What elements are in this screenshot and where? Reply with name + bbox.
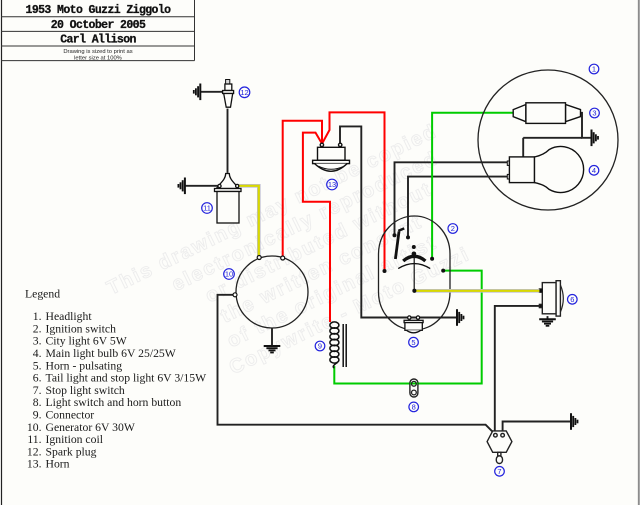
svg-text:Carl Allison: Carl Allison <box>60 34 136 47</box>
switch S2 rotor hub dot <box>412 252 417 257</box>
wire: horn13 black to pulsating horn and ground <box>340 126 457 317</box>
wire: spark plug to coil HT <box>227 109 229 173</box>
svg-text:10: 10 <box>225 270 233 279</box>
svg-text:1953 Moto Guzzi Ziggolo: 1953 Moto Guzzi Ziggolo <box>26 4 172 17</box>
label 3 <box>590 108 600 118</box>
svg-text:3: 3 <box>592 109 596 118</box>
svg-text:7.: 7. <box>33 384 42 397</box>
label 8 <box>409 402 419 412</box>
svg-text:Legend: Legend <box>25 288 60 301</box>
generator terminals <box>233 256 285 297</box>
label 9 <box>315 341 325 351</box>
svg-text:9: 9 <box>318 342 322 351</box>
svg-text:Horn - pulsating: Horn - pulsating <box>46 359 123 372</box>
svg-text:4.: 4. <box>33 347 42 360</box>
page border left <box>1 0 3 505</box>
horn H13 <box>313 143 350 171</box>
switch S2 rotor thin arc <box>398 264 430 269</box>
coupler coil L9 <box>330 322 346 368</box>
wire: black headlight low-beam to switch <box>395 162 508 235</box>
svg-text:Horn: Horn <box>46 458 70 471</box>
switch S2 lever <box>395 232 399 260</box>
stop light switch S7 <box>487 431 512 464</box>
ignition coil T11 <box>215 174 242 224</box>
svg-text:Spark plug: Spark plug <box>46 445 97 458</box>
svg-text:Headlight: Headlight <box>46 310 93 323</box>
svg-text:13: 13 <box>328 180 336 189</box>
wire: tail light to stop switch <box>495 306 540 434</box>
svg-text:12: 12 <box>240 88 248 97</box>
label 11 <box>202 203 213 214</box>
node: switch bottom contact redraw <box>412 289 416 293</box>
svg-text:7: 7 <box>497 467 501 476</box>
svg-text:1: 1 <box>592 65 596 74</box>
ground G7 stop switch <box>571 413 578 430</box>
horn H5 pulsating <box>404 316 423 333</box>
wire: red horn13 to coupler coil <box>303 133 330 322</box>
main bulb B4 <box>507 146 583 192</box>
generator M10 <box>236 256 308 328</box>
legend items <box>27 310 207 471</box>
label 2 <box>448 224 458 234</box>
wire: green city light to switch <box>432 113 513 259</box>
wire: stop switch to ground <box>503 422 571 434</box>
wire: generator left terminal to bottom bus <box>218 295 496 435</box>
svg-text:City light 6V 5W: City light 6V 5W <box>46 335 128 348</box>
wire: yellow switch to tail light <box>414 289 539 293</box>
wire: black headlight internal ground bus <box>523 137 582 139</box>
wire: black headlight high-beam to switch <box>408 177 507 238</box>
ground G6 tail light <box>539 319 556 326</box>
svg-text:Main light bulb 6V 25/25W: Main light bulb 6V 25/25W <box>46 347 177 360</box>
spark plug P12 <box>223 80 234 108</box>
svg-text:4: 4 <box>592 166 596 175</box>
ignition switch S2 body <box>379 216 451 330</box>
label 5 <box>409 337 419 347</box>
label 1 <box>589 64 599 74</box>
label 4 <box>589 166 599 176</box>
switch S2 contacts <box>383 233 446 292</box>
svg-text:9.: 9. <box>33 409 42 422</box>
svg-text:1.: 1. <box>33 310 42 323</box>
svg-text:8: 8 <box>412 403 416 412</box>
wire: green switch to coupler via connector <box>334 271 481 384</box>
svg-text:3.: 3. <box>33 335 42 348</box>
wire: coil ground lead <box>185 185 218 187</box>
svg-text:Generator 6V 30W: Generator 6V 30W <box>46 421 136 434</box>
svg-text:5: 5 <box>411 338 415 347</box>
tail light B6 <box>539 281 563 316</box>
label 13 <box>327 179 338 190</box>
svg-text:5.: 5. <box>33 359 42 372</box>
svg-text:6.: 6. <box>33 372 42 385</box>
label 12 <box>239 87 250 98</box>
wire: spark plug ground lead <box>200 91 222 93</box>
svg-text:10.: 10. <box>27 421 42 434</box>
svg-text:Light switch and horn button: Light switch and horn button <box>46 396 182 409</box>
ground G4 horn bus <box>457 309 464 326</box>
window edge right <box>638 0 640 505</box>
svg-text:12.: 12. <box>27 445 42 458</box>
svg-text:2: 2 <box>451 224 455 233</box>
svg-text:Connector: Connector <box>46 409 95 422</box>
svg-text:Drawing is sized to print as: Drawing is sized to print as <box>63 49 132 55</box>
label 10 <box>224 269 235 280</box>
svg-text:letter size at 100%: letter size at 100% <box>74 55 122 61</box>
title block frame <box>1 0 195 61</box>
ground G3 coil <box>178 178 185 195</box>
svg-text:11: 11 <box>203 204 211 213</box>
svg-text:11.: 11. <box>27 433 41 446</box>
wire: black festoon to ground junction <box>581 113 592 138</box>
generator ground stem <box>271 328 273 346</box>
wire: black bulb base to ground bus <box>522 138 524 157</box>
tail light ground stem <box>547 316 549 319</box>
label 7 <box>495 467 505 477</box>
wire: yellow coil to generator <box>238 186 259 257</box>
svg-text:20 October 2005: 20 October 2005 <box>51 19 146 32</box>
ground G5 generator <box>264 346 281 353</box>
switch S2 rotor thick arc <box>403 256 425 261</box>
label 6 <box>568 295 578 305</box>
svg-text:Ignition switch: Ignition switch <box>46 322 117 335</box>
switch S2 rotor shaft <box>413 255 415 291</box>
wire: red horn13 to ignition switch <box>322 112 384 271</box>
svg-text:Ignition coil: Ignition coil <box>46 433 104 446</box>
svg-text:13.: 13. <box>27 458 42 471</box>
tail light top terminal nub redraw <box>539 289 542 292</box>
svg-text:6: 6 <box>570 295 574 304</box>
svg-text:Stop light switch: Stop light switch <box>46 384 125 397</box>
ground G1 in headlight <box>592 130 599 147</box>
city light bulb B3 (festoon) <box>513 103 580 124</box>
svg-text:2.: 2. <box>33 322 42 335</box>
headlight U1 shell <box>478 70 618 210</box>
switch S2 lever arrowhead <box>398 228 404 231</box>
svg-text:Tail light and stop light 6V 3: Tail light and stop light 6V 3/15W <box>46 372 208 385</box>
ground G2 spark plug <box>194 84 201 101</box>
connector J8 <box>410 379 418 397</box>
watermark diagonal text <box>104 120 496 412</box>
svg-text:8.: 8. <box>33 396 42 409</box>
wire: red magneto feed - generator to horn13 <box>283 121 322 257</box>
